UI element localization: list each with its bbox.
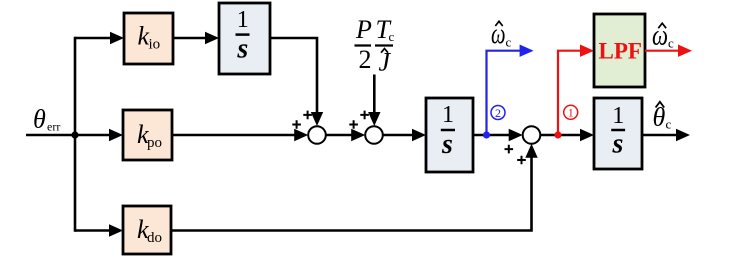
label theta_c hat output xyxy=(653,102,672,132)
plus sign left input S2 xyxy=(349,120,358,129)
label circled 1 red xyxy=(564,105,578,119)
node dot red tap xyxy=(554,131,561,138)
node dot blue tap xyxy=(483,131,490,138)
wire integrator1 output down to summer 1 xyxy=(270,38,317,114)
label gain fraction P/2 Tc/J xyxy=(355,15,395,77)
svg-text:LPF: LPF xyxy=(599,39,642,64)
svg-text:s: s xyxy=(236,34,248,65)
svg-text:c: c xyxy=(506,35,512,50)
plus sign left input S1 xyxy=(292,120,301,129)
node theta_err input label xyxy=(33,105,60,134)
gain block k_do xyxy=(123,206,171,254)
wire k_io to integrator 1 xyxy=(173,37,207,40)
svg-text:s: s xyxy=(441,129,453,160)
wire fraction to summer 2 xyxy=(373,75,376,115)
wire S2 to integrator 2 xyxy=(383,134,414,137)
label omega_c hat (blue tap) xyxy=(491,17,512,50)
wire S3 to integrator 3 xyxy=(540,134,582,137)
svg-text:P: P xyxy=(355,15,372,44)
wire S1 to S2 xyxy=(326,134,353,137)
svg-text:ω: ω xyxy=(652,19,668,52)
wire integrator 3 output theta_c xyxy=(642,134,678,137)
svg-text:io: io xyxy=(149,37,161,53)
summer S3 xyxy=(523,126,541,144)
gain block k_po xyxy=(123,110,172,160)
plus sign top input S1 xyxy=(303,111,312,120)
plus sign left input S3 xyxy=(505,145,514,154)
svg-text:1: 1 xyxy=(237,7,249,33)
plus sign bottom input S3 xyxy=(517,156,526,165)
svg-text:1: 1 xyxy=(442,102,454,128)
integrator block 1/s top xyxy=(219,3,270,74)
svg-text:2: 2 xyxy=(495,106,501,120)
wire input horizontal theta_err to k_po xyxy=(26,134,112,137)
svg-text:θ: θ xyxy=(33,105,46,134)
integrator block 1/s middle xyxy=(426,98,473,172)
summer S2 xyxy=(365,126,383,144)
svg-text:do: do xyxy=(147,230,162,246)
gain block k_io xyxy=(124,13,173,64)
svg-text:po: po xyxy=(147,135,162,151)
blue wire omega tap xyxy=(487,51,522,135)
svg-text:2: 2 xyxy=(359,45,372,74)
wire branch to k_io xyxy=(75,37,112,40)
wire k_po to summer 1 xyxy=(172,134,296,137)
LPF block xyxy=(594,14,645,87)
red wire to LPF xyxy=(558,51,582,135)
label circled 2 blue xyxy=(491,106,505,120)
wire branch vertical xyxy=(74,37,77,232)
summer S1 xyxy=(308,126,326,144)
svg-text:J: J xyxy=(379,48,392,77)
red wire LPF output xyxy=(645,50,680,52)
svg-text:c: c xyxy=(668,36,674,51)
svg-text:1: 1 xyxy=(612,103,624,129)
svg-text:s: s xyxy=(612,129,624,160)
svg-text:err: err xyxy=(47,120,60,134)
svg-text:c: c xyxy=(666,117,672,132)
wire branch to k_do xyxy=(75,229,111,232)
svg-text:1: 1 xyxy=(568,106,574,120)
plus sign top input S2 xyxy=(360,111,369,120)
label omega_c hat (LPF output) xyxy=(652,19,674,52)
wire k_do to summer 3 xyxy=(171,156,532,231)
integrator block 1/s right xyxy=(594,98,642,169)
wire integrator2 to summer 3 xyxy=(473,134,511,137)
junction dot at branch xyxy=(71,131,78,138)
svg-text:c: c xyxy=(389,29,395,44)
